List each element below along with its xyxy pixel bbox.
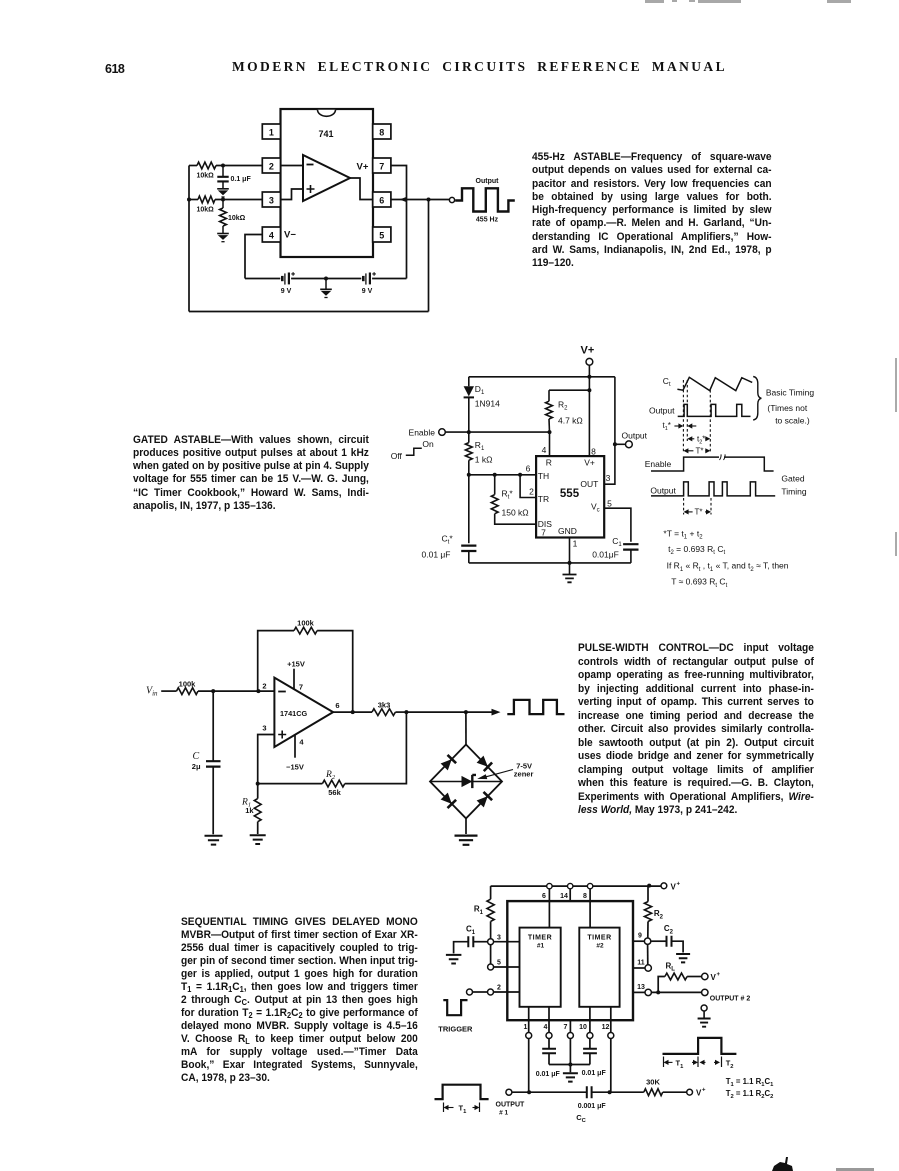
svg-text:6: 6 [542, 893, 546, 900]
ground (C1 2556) [446, 955, 462, 964]
ground terminal circle (output2) [701, 1005, 707, 1011]
wire V+ stub [588, 365, 590, 377]
svg-text:3: 3 [269, 195, 274, 205]
resistor Rt 150k [491, 475, 536, 524]
svg-text:+15V: +15V [287, 659, 305, 668]
svg-text:Enable: Enable [409, 427, 436, 437]
svg-text:4: 4 [544, 1024, 548, 1031]
capacitor C 2u [206, 691, 221, 834]
node TH left [467, 473, 471, 477]
label R2 (2556) [654, 909, 664, 920]
pin 3 circle [488, 939, 494, 945]
svg-text:+: + [702, 1088, 706, 1094]
svg-text:2: 2 [269, 161, 274, 171]
Enable terminal [439, 429, 446, 436]
label OUTPUT #2 [710, 995, 751, 1002]
wire output1 line [512, 1091, 586, 1093]
pin number 7 (opamp) [299, 682, 303, 691]
node pin12/CC [608, 1090, 612, 1094]
pin 5 box [373, 227, 391, 242]
square wave Output symbol [455, 178, 515, 224]
battery 9V left [280, 272, 295, 296]
output 1 terminal [506, 1089, 512, 1095]
zener diode 7-5V [462, 775, 477, 788]
wire pin5 [494, 966, 520, 968]
resistor R1 (2556) [487, 886, 494, 939]
node output junction [613, 442, 617, 446]
label Vc [591, 502, 600, 514]
pin number 4 [542, 445, 547, 455]
ground (R1 pwm) [250, 835, 266, 844]
label V+ RL [711, 972, 721, 982]
ground (bridge) [455, 836, 478, 845]
curly brace basic timing [753, 377, 761, 421]
svg-text:to scale.): to scale.) [775, 416, 810, 426]
V+ terminal bottom [687, 1089, 693, 1095]
svg-text:+: + [717, 972, 721, 978]
label t2* [697, 434, 705, 445]
output terminal 555 [626, 441, 633, 448]
label 1k [245, 806, 254, 815]
svg-text:4: 4 [299, 737, 304, 746]
wire Vc pin5 to C1 [604, 508, 631, 542]
equation T sum [663, 529, 703, 541]
capacitor C2 (2556) [651, 936, 683, 953]
node TH Rt [493, 473, 497, 477]
trigger waveform [443, 1000, 467, 1015]
t2 arrows [687, 436, 710, 441]
dashed line t1 left [682, 380, 684, 452]
svg-text:# 1: # 1 [499, 1109, 508, 1116]
wire R2 branch down [345, 712, 407, 784]
pin 4 circle [546, 1033, 552, 1039]
output1 waveform [435, 1085, 489, 1099]
svg-text:Output: Output [649, 406, 675, 416]
resistor 30K [644, 1089, 687, 1096]
label 555 [560, 488, 580, 500]
svg-text:t2 = 0.693 Rt Ct: t2 = 0.693 Rt Ct [668, 544, 725, 556]
page number [105, 62, 124, 76]
svg-text:CC: CC [576, 1113, 586, 1124]
node cap bus [568, 1063, 572, 1067]
svg-text:C1: C1 [466, 925, 476, 936]
node output 3k3 junction [351, 710, 355, 714]
label Timing [781, 486, 806, 496]
node C junction [211, 689, 215, 693]
svg-text:T*: T* [696, 446, 704, 455]
label +15V [287, 659, 305, 668]
wire opamp output [333, 711, 372, 713]
label V+ at pin 7 [357, 162, 369, 173]
scan artifact top bars [645, 0, 664, 3]
svg-text:Ct*: Ct* [442, 534, 454, 546]
svg-text:0.01μF: 0.01μF [592, 550, 619, 560]
wire pin4 to supply rail [245, 235, 262, 279]
label V− at pin 4 [284, 230, 296, 241]
gated T arrows [684, 509, 711, 514]
label OUTPUT #1 [496, 1101, 526, 1116]
pin number 4b [544, 1024, 548, 1031]
capacitor 0.1uF [217, 166, 251, 189]
wire pin3 internal [281, 189, 304, 200]
resistor R2 (2556) [644, 886, 651, 938]
pin 12 circle [608, 1033, 614, 1039]
output arrowhead [492, 709, 501, 716]
svg-text:*T = t1 + t2: *T = t1 + t2 [663, 529, 703, 541]
svg-text:2: 2 [529, 486, 534, 496]
label DIS [538, 519, 553, 529]
label 2u [192, 762, 201, 771]
pin number 10b [579, 1024, 587, 1031]
text block PULSE-WIDTH CONTROL [578, 642, 814, 818]
label R2 [558, 400, 568, 412]
label R pin4 [546, 457, 552, 467]
node GND rail [568, 561, 572, 565]
resistor R2 4.7k [546, 390, 553, 432]
dashed line gated T right [710, 498, 712, 515]
svg-text:C: C [193, 751, 200, 762]
svg-text:1741CG: 1741CG [280, 709, 308, 718]
wire OUT pin3 [604, 444, 615, 484]
IC XR-2556 outer body [507, 901, 633, 1020]
svg-text:T1: T1 [459, 1104, 468, 1115]
svg-text:Gated: Gated [781, 473, 804, 483]
svg-text:2: 2 [262, 681, 266, 690]
label t1* [663, 421, 671, 432]
pin number 5 [607, 498, 612, 508]
wire op-amp output to pin6 [350, 178, 373, 200]
wire top rail [469, 376, 615, 378]
label C1 (555) [612, 536, 622, 548]
label 0.001uF [578, 1103, 607, 1110]
wire CC to 30K [592, 1091, 644, 1093]
pin number 13 (2556) [637, 984, 645, 991]
svg-text:150 kΩ: 150 kΩ [502, 508, 529, 518]
pin 11 circle [645, 965, 651, 971]
label Basic Timing [766, 388, 814, 398]
on-off step symbol [406, 448, 422, 455]
wire to minus input [258, 690, 274, 692]
wire rail to diode [468, 377, 470, 386]
wire pin13 to output2 [651, 991, 701, 993]
label On [422, 439, 434, 449]
label 7-5V [516, 762, 532, 771]
bridge diode bottom-right [477, 792, 493, 808]
svg-text:Vin: Vin [146, 686, 158, 698]
bridge diode top-right [477, 756, 493, 772]
pin 4 box [262, 227, 280, 242]
label 0.01uF (Ct) [422, 550, 451, 560]
svg-text:555: 555 [560, 488, 580, 500]
label R1 (2556) [474, 905, 484, 916]
text block 455-Hz ASTABLE [532, 151, 772, 271]
svg-text:8: 8 [591, 446, 596, 456]
svg-text:Output: Output [622, 430, 648, 440]
pin number 7b [564, 1024, 568, 1031]
label C1 (2556) [466, 925, 476, 936]
capacitor 0.01uF left [542, 1049, 556, 1065]
V+ terminal top [661, 883, 667, 889]
label T* [696, 446, 704, 455]
wire Vin input [161, 690, 258, 692]
svg-text:OUT: OUT [580, 479, 598, 489]
pin 8 box [373, 124, 391, 139]
running head title [232, 59, 727, 75]
label Output basic [649, 406, 675, 416]
label Enable gated [645, 459, 672, 469]
wire pin11 [633, 967, 645, 969]
svg-text:TIMER: TIMER [587, 934, 611, 941]
svg-text:12: 12 [602, 1024, 610, 1031]
label Gated [781, 473, 804, 483]
label Output gated [650, 485, 676, 495]
bottom-right ink blob [772, 1157, 874, 1171]
svg-text:Enable: Enable [645, 459, 672, 469]
op-amp A1 1741CG triangle [274, 678, 333, 747]
svg-text:0.01 μF: 0.01 μF [582, 1070, 607, 1077]
node plus input junction [256, 782, 260, 786]
pin number 12b [602, 1024, 610, 1031]
pin number 8 [591, 446, 596, 456]
wire pin7 (2556) [569, 1020, 571, 1064]
wire pin9-pin11 link [647, 944, 649, 964]
node supply rail center [324, 277, 328, 281]
svg-text:6: 6 [379, 195, 384, 205]
sawtooth Ct waveform [677, 377, 752, 390]
label Output (555) [622, 430, 648, 440]
pin number 2 [529, 486, 534, 496]
label TR [538, 494, 549, 504]
node V+/rail [587, 375, 591, 379]
wire pin13 [633, 991, 645, 993]
wire left vertical feedback [188, 166, 190, 312]
pin number 9 (2556) [638, 932, 642, 939]
pin number 6 [526, 463, 531, 473]
ground (10k resistor) [217, 234, 229, 242]
svg-text:4: 4 [269, 230, 274, 240]
node bridge junction [464, 710, 468, 714]
wire +15V pin7 [293, 669, 295, 690]
label 0.01uF left [536, 1071, 561, 1078]
equation conditions [667, 561, 789, 573]
wire bridge top feed [465, 712, 467, 744]
svg-text:741: 741 [318, 129, 333, 139]
label V+ bottom [696, 1088, 706, 1098]
V+ terminal RL [702, 973, 708, 979]
svg-text:100k: 100k [297, 619, 315, 628]
wire bottom supply rail [245, 278, 407, 280]
node pin2/cap junction [221, 164, 225, 168]
bridge diode bottom-left [441, 793, 457, 809]
svg-text:9 V: 9 V [281, 288, 292, 295]
svg-text:0.1 μF: 0.1 μF [231, 176, 252, 183]
T1T2 waveform [663, 1038, 737, 1054]
wire reset pin4 [549, 432, 551, 456]
wire output to arrow [406, 711, 494, 713]
svg-text:7: 7 [564, 1024, 568, 1031]
svg-text:On: On [422, 439, 434, 449]
pin 2 circle [488, 989, 494, 995]
label T* gated [695, 508, 703, 517]
wire pin4 (2556) [548, 1007, 550, 1049]
svg-text:3k3: 3k3 [378, 701, 391, 710]
label 0.01uF right [582, 1070, 607, 1077]
label Vin [146, 686, 158, 698]
svg-text:T2 = 1.1 R2C2: T2 = 1.1 R2C2 [726, 1089, 774, 1100]
svg-text:0.01 μF: 0.01 μF [536, 1071, 561, 1078]
resistor RL [658, 973, 701, 992]
svg-text:GND: GND [558, 526, 577, 536]
svg-text:4: 4 [542, 445, 547, 455]
T arrows [683, 448, 710, 453]
svg-text:R2: R2 [558, 400, 568, 412]
label CC [576, 1113, 586, 1124]
pin number 2 (2556) [497, 985, 501, 992]
node pin13/RL [656, 990, 660, 994]
label R1 [475, 440, 485, 452]
pin number 6 (2556) [542, 893, 546, 900]
wire pin3-pin5 link [490, 945, 492, 964]
pin number 11 (2556) [637, 960, 645, 967]
wire pin2 (2556) [494, 991, 520, 993]
svg-text:Ct: Ct [663, 376, 671, 388]
ground (output2) [698, 1011, 711, 1027]
svg-text:OUTPUT: OUTPUT [496, 1101, 526, 1108]
wire pin14 [569, 889, 571, 901]
svg-text:TRIGGER: TRIGGER [438, 1025, 473, 1034]
svg-text:R: R [546, 457, 552, 467]
dashed line gated T left [683, 498, 685, 515]
svg-text:7: 7 [299, 682, 303, 691]
pin number 2 (opamp) [262, 681, 266, 690]
label to scale [775, 416, 810, 426]
wire pin1 (2556) [528, 1007, 530, 1092]
wire pin12 (2556) [610, 1007, 612, 1092]
label R2 (pwm) [325, 770, 336, 781]
T1 dimension (output1) [444, 1103, 480, 1115]
output terminal [449, 197, 454, 202]
svg-text:Output: Output [476, 178, 500, 185]
label GND [558, 526, 577, 536]
resistor 10k (pin3) [197, 196, 216, 213]
svg-text:Output: Output [650, 485, 676, 495]
wire trigger branch [520, 475, 536, 498]
T1 T2 dimension [664, 1057, 734, 1070]
svg-text:3: 3 [497, 935, 501, 942]
IC 555 body [536, 456, 604, 537]
node output feedback junction [427, 198, 431, 202]
diode bridge frame [430, 745, 502, 819]
svg-text:10kΩ: 10kΩ [197, 173, 215, 180]
pin 14 circle [568, 883, 573, 888]
wire threshold line [469, 474, 536, 476]
label -15V [286, 762, 304, 771]
wire pin3 left [189, 199, 262, 201]
capacitor 0.01uF right [583, 1049, 597, 1065]
label 150kohm [502, 508, 529, 518]
svg-text:1 kΩ: 1 kΩ [475, 455, 493, 465]
label V+ pin8 [584, 457, 595, 467]
dashed line T right [709, 390, 711, 452]
pin 6 box [373, 192, 391, 207]
label TH [538, 471, 549, 481]
capacitor C1 0.01uF [623, 544, 638, 563]
label V+ supply [581, 345, 595, 357]
resistor R1 1k [465, 432, 472, 475]
svg-text:R2: R2 [325, 770, 336, 781]
pin 9 circle [644, 938, 650, 944]
equation t2 [668, 544, 725, 556]
svg-text:T1 = 1.1 R1C1: T1 = 1.1 R1C1 [726, 1077, 774, 1088]
pin number 7 [541, 527, 546, 537]
svg-text:1N914: 1N914 [475, 399, 500, 409]
diode D1 1N914 [464, 386, 474, 432]
resistor 3k3 [372, 701, 395, 716]
wire feedback bottom [189, 200, 429, 312]
node enable/R2 [548, 430, 552, 434]
svg-text:1: 1 [269, 127, 274, 137]
zener leader arrow [477, 770, 513, 780]
label D1 [475, 384, 485, 396]
label Enable [409, 427, 436, 437]
label V+ top [671, 881, 681, 891]
svg-text:7: 7 [541, 527, 546, 537]
ground (cap bus) [563, 1065, 578, 1082]
wire pin2 left [189, 165, 262, 167]
pin number 5 (2556) [497, 960, 501, 967]
ground (C2 2556) [676, 954, 690, 962]
pin number 8 (2556) [583, 893, 587, 900]
node left vertical / pin3 [187, 198, 191, 202]
enable waveform [651, 454, 774, 471]
svg-text:Timing: Timing [781, 486, 806, 496]
trigger input terminal [467, 989, 473, 995]
svg-text:C1: C1 [612, 536, 622, 548]
svg-text:14: 14 [560, 893, 568, 900]
node TH TR [518, 473, 522, 477]
svg-text:0.001 μF: 0.001 μF [578, 1103, 607, 1110]
wire left column to Ct [468, 475, 470, 543]
capacitor CC 0.001uF [587, 1086, 592, 1098]
svg-text:6: 6 [526, 463, 531, 473]
resistor 100k input [177, 679, 199, 694]
svg-text:1: 1 [573, 538, 578, 548]
svg-text:zener: zener [514, 770, 534, 779]
output 2 terminal [702, 989, 708, 995]
node pin1/output1 [527, 1090, 531, 1094]
svg-text:56k: 56k [328, 788, 341, 797]
pin number 3 [606, 473, 611, 483]
svg-text:9: 9 [638, 932, 642, 939]
wire plus input [258, 735, 275, 784]
label Ct* [442, 534, 454, 546]
svg-text:3: 3 [606, 473, 611, 483]
svg-text:TIMER: TIMER [528, 934, 552, 941]
wire R2 to plus node [258, 783, 323, 785]
wire 3k3 to node [395, 711, 406, 713]
capacitor C1 (2556) [454, 936, 488, 953]
svg-text:TR: TR [538, 494, 549, 504]
svg-text:5: 5 [379, 230, 384, 240]
svg-text:10kΩ: 10kΩ [197, 207, 215, 214]
svg-text:C2: C2 [664, 924, 674, 935]
svg-text:1k: 1k [245, 806, 254, 815]
ground (0.1uF cap) [217, 189, 229, 197]
wire GND pin [569, 538, 571, 563]
node R2/pin8 [587, 388, 591, 392]
label 56k [328, 788, 341, 797]
pin 1 box [262, 124, 280, 139]
